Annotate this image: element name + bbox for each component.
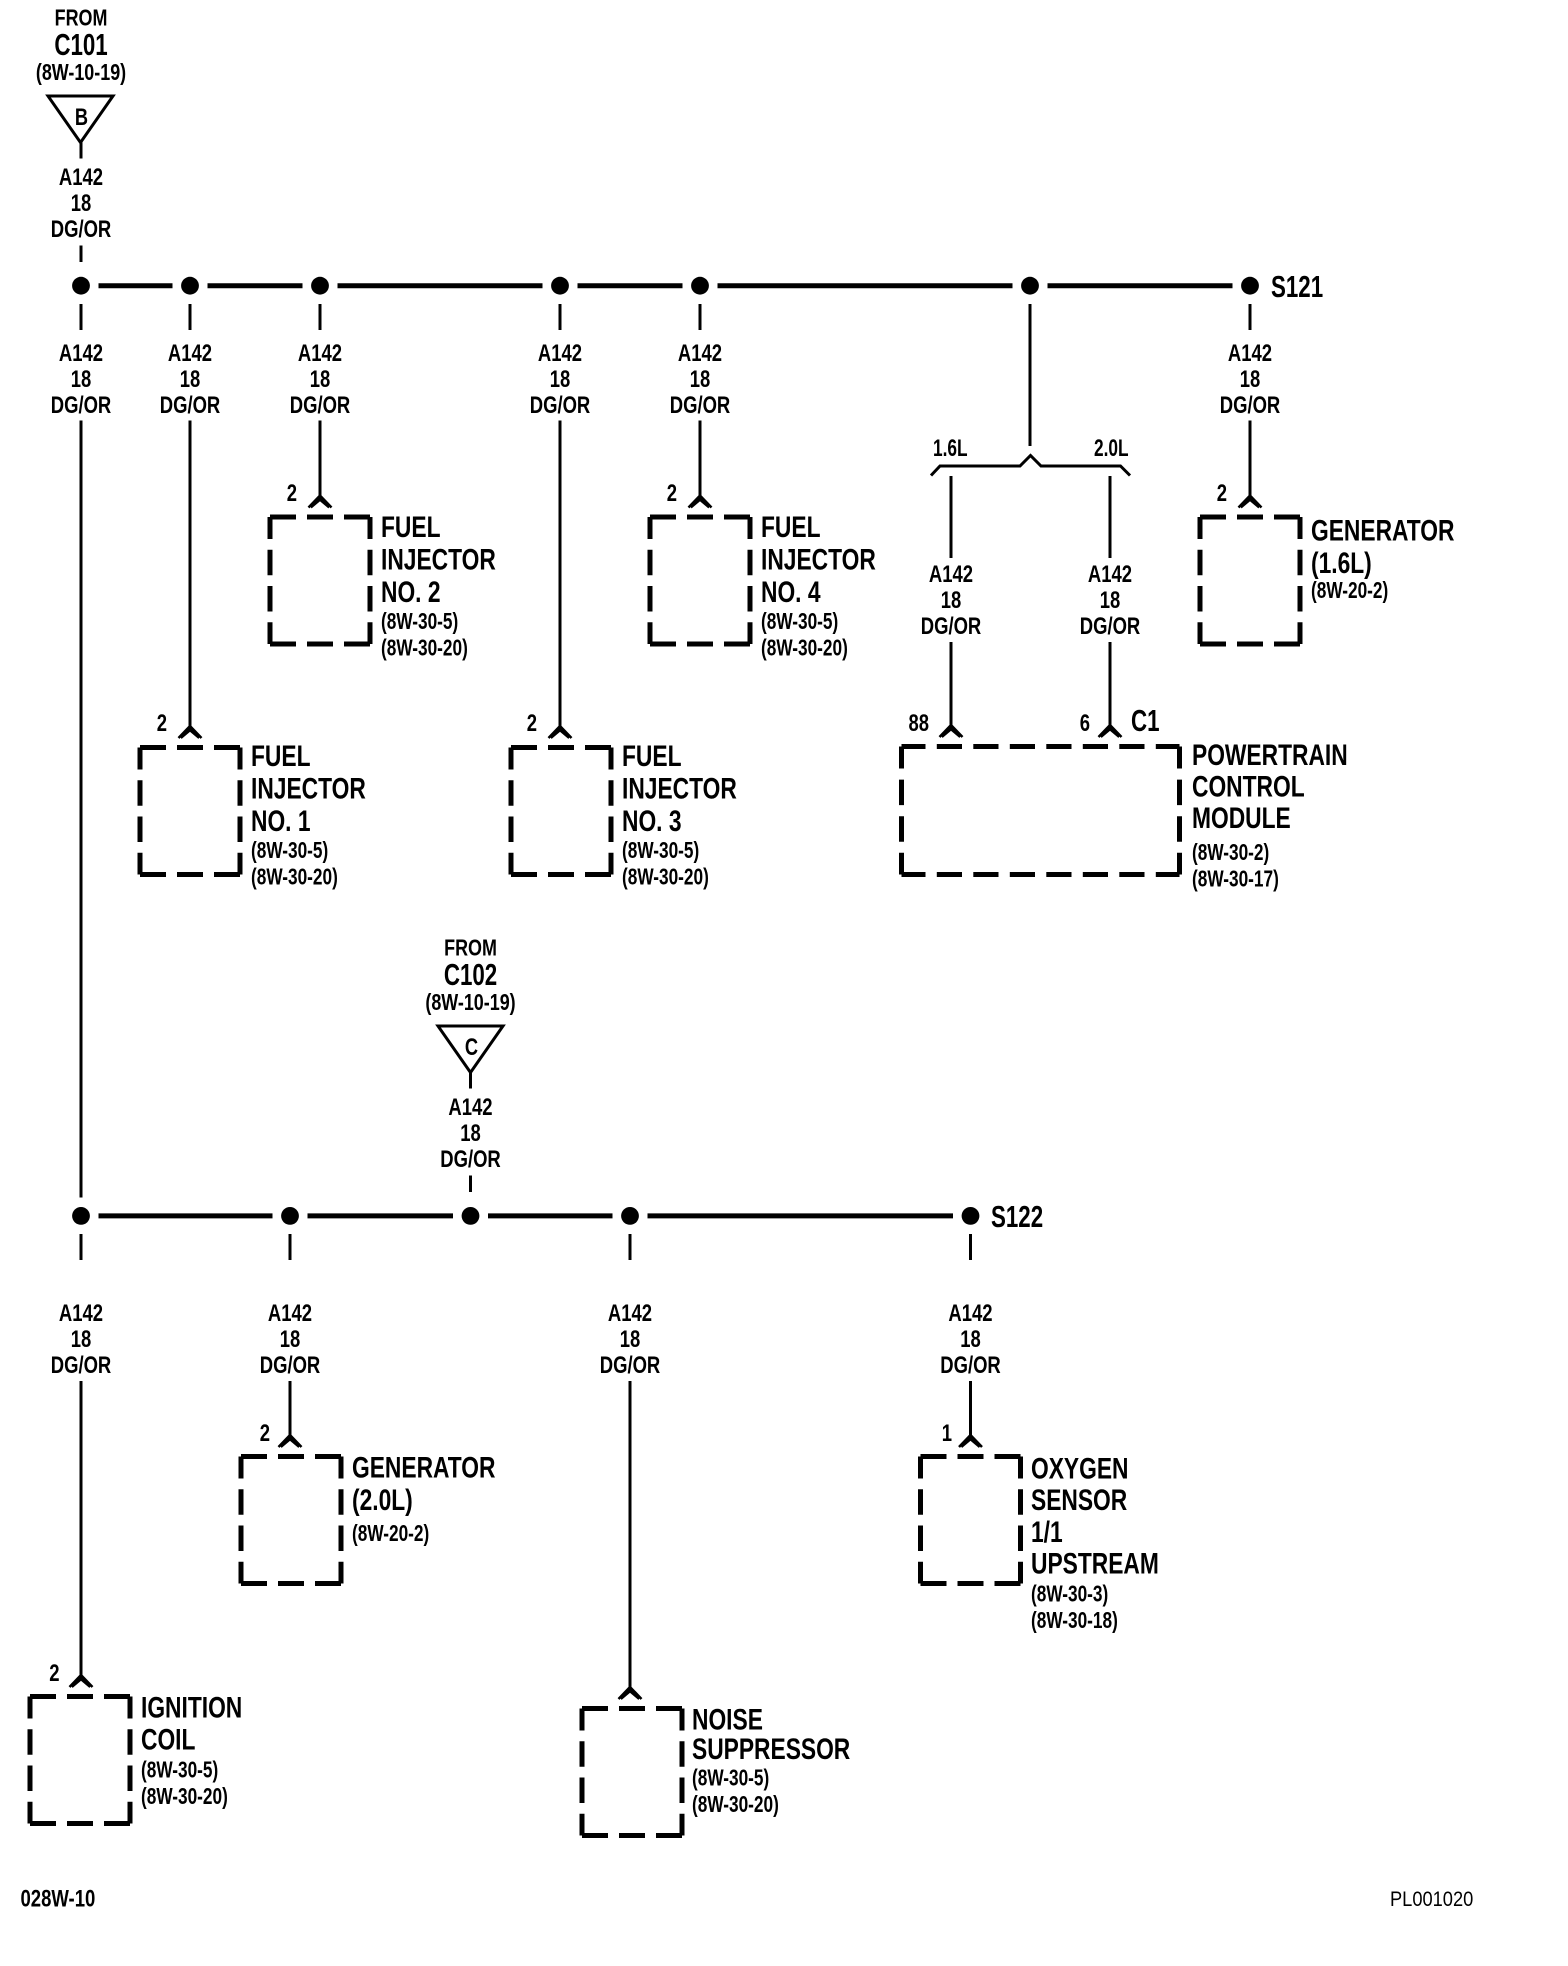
svg-text:NO. 1: NO. 1 xyxy=(251,804,311,838)
svg-text:DG/OR: DG/OR xyxy=(160,392,221,419)
svg-text:18: 18 xyxy=(1100,587,1121,614)
svg-text:NO. 4: NO. 4 xyxy=(761,575,821,609)
svg-text:DG/OR: DG/OR xyxy=(440,1146,501,1173)
svg-text:(8W-30-18): (8W-30-18) xyxy=(1031,1609,1118,1634)
svg-text:A142: A142 xyxy=(59,164,103,191)
svg-text:INJECTOR: INJECTOR xyxy=(761,542,876,576)
svg-text:FUEL: FUEL xyxy=(381,510,440,544)
svg-text:DG/OR: DG/OR xyxy=(260,1352,321,1379)
svg-text:(8W-30-17): (8W-30-17) xyxy=(1192,867,1279,892)
svg-text:SUPPRESSOR: SUPPRESSOR xyxy=(692,1732,850,1766)
svg-text:DG/OR: DG/OR xyxy=(51,216,112,243)
svg-text:PL001020: PL001020 xyxy=(1390,1888,1473,1912)
svg-text:(8W-30-20): (8W-30-20) xyxy=(141,1785,228,1810)
svg-text:(8W-30-20): (8W-30-20) xyxy=(761,636,848,661)
svg-text:B: B xyxy=(75,104,88,131)
svg-text:18: 18 xyxy=(460,1120,481,1147)
svg-text:18: 18 xyxy=(1240,366,1261,393)
svg-text:POWERTRAIN: POWERTRAIN xyxy=(1192,738,1348,772)
svg-text:A142: A142 xyxy=(678,340,722,367)
svg-text:FUEL: FUEL xyxy=(761,510,820,544)
svg-text:2: 2 xyxy=(260,1420,270,1447)
svg-text:IGNITION: IGNITION xyxy=(141,1690,242,1724)
svg-text:(8W-30-2): (8W-30-2) xyxy=(1192,841,1269,866)
svg-text:COIL: COIL xyxy=(141,1722,195,1756)
svg-text:DG/OR: DG/OR xyxy=(921,613,982,640)
svg-text:2: 2 xyxy=(49,1660,59,1687)
svg-text:FUEL: FUEL xyxy=(251,739,310,773)
svg-text:2: 2 xyxy=(157,710,167,737)
svg-text:(8W-30-20): (8W-30-20) xyxy=(692,1793,779,1818)
svg-text:(8W-20-2): (8W-20-2) xyxy=(352,1522,429,1547)
svg-text:GENERATOR: GENERATOR xyxy=(352,1450,495,1484)
svg-text:A142: A142 xyxy=(448,1094,492,1121)
svg-text:88: 88 xyxy=(908,710,929,737)
svg-text:(8W-30-5): (8W-30-5) xyxy=(761,610,838,635)
svg-text:2: 2 xyxy=(527,710,537,737)
svg-text:OXYGEN: OXYGEN xyxy=(1031,1451,1128,1485)
svg-text:C1: C1 xyxy=(1131,703,1160,737)
svg-text:NO. 2: NO. 2 xyxy=(381,575,441,609)
svg-text:DG/OR: DG/OR xyxy=(940,1352,1001,1379)
svg-text:2: 2 xyxy=(667,480,677,507)
svg-text:18: 18 xyxy=(960,1326,981,1353)
svg-text:CONTROL: CONTROL xyxy=(1192,769,1305,803)
svg-text:18: 18 xyxy=(690,366,711,393)
svg-text:NO. 3: NO. 3 xyxy=(622,804,682,838)
svg-text:A142: A142 xyxy=(59,1300,103,1327)
svg-text:(8W-20-2): (8W-20-2) xyxy=(1311,579,1388,604)
svg-text:(8W-30-5): (8W-30-5) xyxy=(692,1766,769,1791)
svg-text:A142: A142 xyxy=(929,561,973,588)
svg-text:(8W-30-5): (8W-30-5) xyxy=(622,839,699,864)
svg-text:S121: S121 xyxy=(1271,269,1323,303)
svg-text:SENSOR: SENSOR xyxy=(1031,1483,1127,1517)
svg-text:UPSTREAM: UPSTREAM xyxy=(1031,1547,1159,1581)
svg-text:18: 18 xyxy=(550,366,571,393)
svg-text:DG/OR: DG/OR xyxy=(1080,613,1141,640)
svg-text:A142: A142 xyxy=(298,340,342,367)
svg-text:INJECTOR: INJECTOR xyxy=(251,771,366,805)
svg-text:(8W-30-5): (8W-30-5) xyxy=(251,839,328,864)
svg-text:INJECTOR: INJECTOR xyxy=(622,771,737,805)
svg-text:DG/OR: DG/OR xyxy=(290,392,351,419)
svg-text:C: C xyxy=(465,1034,478,1061)
svg-text:18: 18 xyxy=(310,366,331,393)
svg-text:C102: C102 xyxy=(444,957,497,991)
svg-text:DG/OR: DG/OR xyxy=(1220,392,1281,419)
svg-text:1: 1 xyxy=(942,1420,952,1447)
svg-text:DG/OR: DG/OR xyxy=(670,392,731,419)
svg-text:6: 6 xyxy=(1080,710,1090,737)
svg-text:(8W-30-20): (8W-30-20) xyxy=(251,865,338,890)
svg-text:A142: A142 xyxy=(268,1300,312,1327)
svg-text:(8W-30-20): (8W-30-20) xyxy=(622,865,709,890)
svg-text:A142: A142 xyxy=(608,1300,652,1327)
svg-text:(1.6L): (1.6L) xyxy=(1311,546,1372,580)
svg-text:FUEL: FUEL xyxy=(622,739,681,773)
svg-text:A142: A142 xyxy=(168,340,212,367)
svg-text:A142: A142 xyxy=(59,340,103,367)
svg-text:(2.0L): (2.0L) xyxy=(352,1483,413,1517)
svg-text:1/1: 1/1 xyxy=(1031,1515,1063,1549)
svg-text:18: 18 xyxy=(71,190,92,217)
svg-text:MODULE: MODULE xyxy=(1192,801,1291,835)
svg-text:18: 18 xyxy=(620,1326,641,1353)
svg-text:2: 2 xyxy=(287,480,297,507)
svg-text:18: 18 xyxy=(941,587,962,614)
svg-text:INJECTOR: INJECTOR xyxy=(381,542,496,576)
svg-text:A142: A142 xyxy=(1228,340,1272,367)
svg-text:A142: A142 xyxy=(948,1300,992,1327)
svg-text:DG/OR: DG/OR xyxy=(530,392,591,419)
svg-text:18: 18 xyxy=(71,366,92,393)
svg-text:(8W-30-3): (8W-30-3) xyxy=(1031,1582,1108,1607)
svg-text:DG/OR: DG/OR xyxy=(51,1352,112,1379)
svg-text:GENERATOR: GENERATOR xyxy=(1311,513,1454,547)
svg-text:2.0L: 2.0L xyxy=(1094,435,1129,461)
svg-text:(8W-30-5): (8W-30-5) xyxy=(381,610,458,635)
svg-text:DG/OR: DG/OR xyxy=(51,392,112,419)
svg-text:18: 18 xyxy=(180,366,201,393)
svg-text:DG/OR: DG/OR xyxy=(600,1352,661,1379)
svg-text:1.6L: 1.6L xyxy=(933,435,968,461)
svg-text:(8W-30-5): (8W-30-5) xyxy=(141,1758,218,1783)
svg-text:2: 2 xyxy=(1217,480,1227,507)
svg-text:028W-10: 028W-10 xyxy=(21,1884,96,1912)
svg-text:18: 18 xyxy=(280,1326,301,1353)
svg-text:(8W-10-19): (8W-10-19) xyxy=(425,990,515,1016)
svg-text:(8W-30-20): (8W-30-20) xyxy=(381,636,468,661)
svg-text:S122: S122 xyxy=(991,1199,1043,1233)
svg-text:A142: A142 xyxy=(1088,561,1132,588)
svg-text:A142: A142 xyxy=(538,340,582,367)
svg-text:18: 18 xyxy=(71,1326,92,1353)
svg-text:(8W-10-19): (8W-10-19) xyxy=(36,60,126,86)
svg-text:C101: C101 xyxy=(54,27,107,61)
